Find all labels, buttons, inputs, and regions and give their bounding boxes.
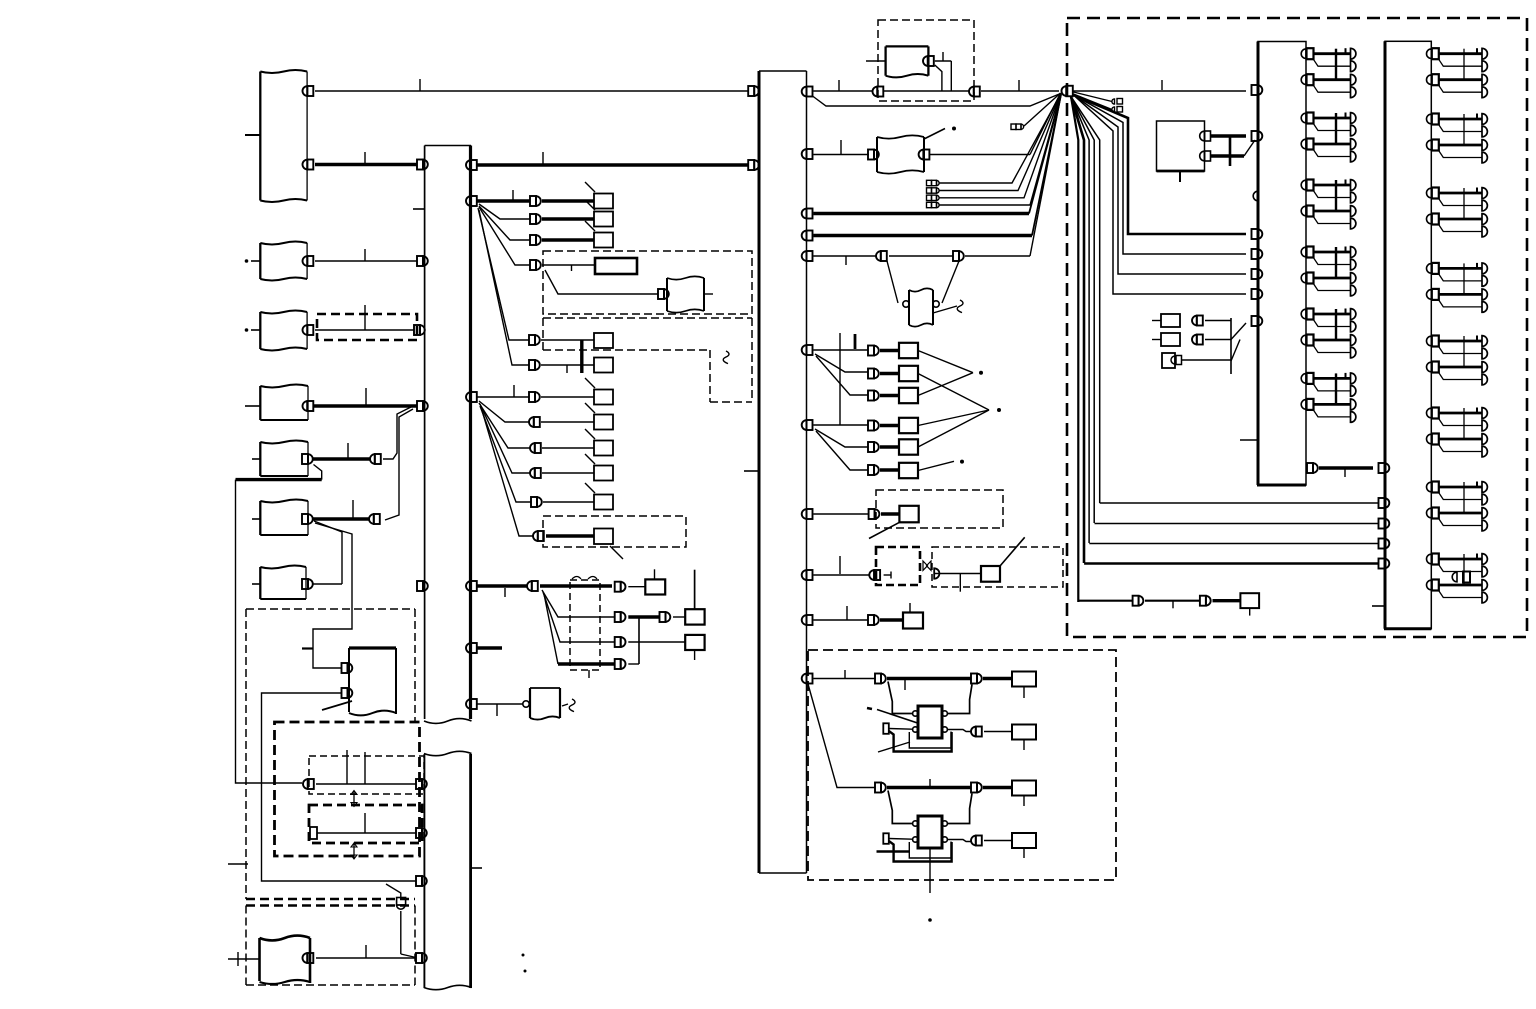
wire row575	[814, 574, 870, 576]
bundle wire 1	[1071, 97, 1078, 603]
stub f2	[1152, 339, 1161, 341]
fuse box f3	[1162, 353, 1175, 368]
cluster X3-1 wire B (thick)	[1314, 78, 1351, 81]
cluster X3-2 terminal 4	[1351, 151, 1356, 162]
wire node X1 down to P6 connector	[385, 409, 413, 520]
cluster X4-5 connector A	[1427, 336, 1439, 347]
load box row586	[645, 579, 665, 594]
cluster X3-3 connector B	[1301, 206, 1313, 217]
wire row219	[542, 217, 594, 220]
wire X2 to relay1	[814, 678, 876, 680]
component box (off-page) P5	[260, 441, 308, 477]
tick relay2 mid	[929, 779, 931, 787]
wire X2 to relay2 (diagonal)	[808, 684, 875, 788]
connector row616 a	[615, 612, 626, 622]
cluster X4-1 connector B	[1427, 74, 1439, 85]
cluster X4-8 terminal 1	[1482, 554, 1487, 565]
lever mark row473	[585, 454, 595, 464]
tick row575	[839, 556, 841, 574]
terminal rect row833	[310, 827, 317, 839]
wire relay2 to load (thick)	[983, 786, 1012, 789]
connector X3 left pin 90	[1252, 85, 1263, 95]
wire E pin2 long run	[262, 693, 417, 881]
connector pair fa	[1192, 316, 1203, 326]
cluster X3-3 tick	[1345, 180, 1347, 186]
connector X1 right pin 2 (fan-out)	[466, 196, 477, 206]
tick on P3 wire	[364, 305, 366, 330]
dot left of P3	[245, 328, 249, 332]
load resistor row536	[594, 529, 613, 545]
vertical trunk wire at far left	[236, 480, 303, 783]
cluster X4-1 splice bar	[1463, 49, 1465, 80]
cluster X4-4 connector B	[1427, 289, 1439, 300]
relay K2 coil loop inner	[909, 842, 951, 859]
cluster X4-4 splice bar	[1463, 263, 1465, 294]
node dot 3	[960, 460, 964, 464]
terminator box bh	[1240, 593, 1259, 608]
connector X2 left pin 91	[748, 86, 759, 96]
wire row91 a	[814, 90, 873, 92]
cluster X4-1 terminal 3	[1482, 74, 1487, 85]
wire row256 diagonal to splice	[1030, 95, 1061, 256]
cluster X4-4 wire A (thick)	[1439, 267, 1482, 270]
lamp box row620	[903, 613, 923, 629]
cluster X4-6 terminal 1	[1482, 408, 1487, 419]
wire lamp row395 (thick)	[880, 394, 899, 397]
mating arrows symbol	[923, 561, 931, 570]
cluster X4-3 terminal 2	[1482, 200, 1487, 211]
connector on ignition box	[923, 56, 934, 66]
updown symbol a	[351, 791, 357, 807]
wire row240	[542, 238, 594, 241]
connector X1 right pin 3 (fan-out 2)	[466, 392, 477, 402]
tick on X1-X2 wire	[542, 152, 544, 164]
cluster X4-8 tick	[1476, 554, 1478, 560]
lever mark row201	[585, 182, 595, 192]
wire row397	[541, 396, 594, 398]
tick below R4	[1023, 848, 1025, 858]
wire lamp row373 to node	[918, 374, 989, 411]
cluster X4-8 wire B (thick)	[1439, 584, 1482, 587]
lamp box row373	[899, 366, 918, 381]
cluster X3-4 terminal 1	[1351, 247, 1356, 258]
fan wire row350	[814, 349, 869, 351]
cluster X3-5 terminal 1	[1351, 309, 1356, 320]
relay K2 coil wire	[889, 838, 913, 841]
cluster X4-8 terminal 3	[1482, 580, 1487, 591]
cluster X3-5 connector A	[1301, 309, 1313, 320]
tiny connector row127	[1011, 124, 1024, 130]
cluster X3-5 connector B	[1301, 335, 1313, 346]
relay K1 body	[918, 706, 942, 738]
dashed boundary top (ignition)	[878, 20, 974, 101]
tick relay1 mid	[904, 679, 906, 691]
fan2 diag row473	[480, 404, 530, 473]
bottom harness wire c (thick)	[1213, 599, 1241, 602]
connector X4 left pin 503	[1379, 498, 1390, 508]
connector X1 left pin C	[414, 325, 425, 335]
bundle wire 2	[1071, 97, 1084, 564]
cluster X3-4 terminal 2	[1351, 259, 1356, 270]
connector X2 right pin 350 (fan)	[802, 345, 813, 355]
connector X2 right pin 213	[802, 209, 813, 219]
connector X3 left pin 321	[1252, 316, 1263, 326]
connector relay1 out	[971, 674, 982, 684]
cluster X3-3 branch A2	[1313, 190, 1351, 198]
wire fa	[1205, 320, 1231, 322]
cluster X3-4 branch B2	[1313, 283, 1351, 291]
tick on P4 wire	[365, 388, 367, 405]
wire row616 to load	[673, 616, 685, 618]
stub wire row648 (thick)	[477, 646, 502, 649]
relay K1 coil loop outer (thick)	[889, 731, 952, 752]
relay K1 leg right	[948, 685, 972, 714]
connector pair row91 c	[969, 87, 980, 97]
load resistor row473	[594, 466, 613, 481]
stub right of sensor	[704, 293, 713, 295]
cluster X4-5 splice bar	[1463, 336, 1465, 367]
junction connector X3	[1257, 42, 1306, 486]
fan diagonal to row 240	[479, 206, 530, 240]
component box (off-page) P3	[260, 311, 307, 351]
cluster X3-3 wire A (thick)	[1314, 184, 1351, 187]
cluster X4-4 tick	[1476, 263, 1478, 269]
cluster X4-7 terminal 3	[1482, 508, 1487, 519]
cluster X3-6 branch B2	[1313, 409, 1351, 417]
cluster X4-8 branch B2	[1438, 590, 1482, 598]
cluster X4-3 terminal 1	[1482, 188, 1487, 199]
cluster X3-1 terminal 4	[1351, 87, 1356, 98]
connector row240	[530, 235, 541, 245]
tick below R1	[1023, 687, 1025, 699]
relay K1 lever 2	[878, 742, 910, 752]
cluster X3-2 terminal 1	[1351, 113, 1356, 124]
dash right of ground box	[562, 704, 568, 706]
wire row510	[814, 513, 869, 515]
wire row213 diagonal to splice	[1029, 94, 1061, 214]
wire relay1 (thick)	[887, 677, 971, 680]
wire lamp row373 (thick)	[880, 372, 899, 375]
leg left to horn	[887, 261, 898, 303]
connector pair row586 a	[527, 581, 538, 591]
connector at sensor	[658, 289, 669, 299]
fan wire to row 201	[477, 199, 530, 202]
updown symbol b	[351, 843, 357, 859]
dashed boundary F2	[932, 547, 1063, 587]
drop wire row265 to sensor	[545, 270, 658, 294]
feed wire vertical	[694, 570, 696, 610]
wire fb	[1205, 339, 1231, 341]
cluster X3-1 terminal 2	[1351, 61, 1356, 72]
tick relay1 wire	[844, 670, 846, 678]
connector X1 left pin A	[417, 160, 428, 170]
wire relay1 to load (thick)	[983, 677, 1012, 680]
splice bar f	[1230, 318, 1232, 374]
cluster X3-6 terminal 3	[1351, 399, 1356, 410]
fan2 diag row448	[479, 403, 530, 448]
connector X2 right pin 575	[802, 570, 813, 580]
wire P5 drop to ground run	[314, 465, 322, 480]
lamp box F2	[981, 566, 1000, 582]
relay K1 lever dash	[867, 708, 872, 709]
connector X3 left pin 274	[1252, 269, 1263, 279]
connector on P6	[302, 514, 313, 524]
tick row91 d	[1018, 80, 1020, 91]
cluster X4-7 terminal 4	[1482, 520, 1487, 531]
wire P5 to splice	[313, 457, 371, 460]
cluster X4-6 connector A	[1427, 408, 1439, 419]
leg right to horn	[942, 261, 959, 303]
relay K2 coil loop outer (thick)	[889, 841, 952, 862]
cluster X4-8 connector B	[1427, 580, 1439, 591]
cluster X4-5 branch B2	[1438, 372, 1482, 380]
component block row265 (wide)	[595, 258, 637, 274]
tick row365	[566, 365, 568, 373]
cluster X4-2 splice bar	[1463, 114, 1465, 145]
cluster X3-2 connector B	[1301, 139, 1313, 150]
connector relay1 in	[875, 674, 886, 684]
tick on X2 left edge	[744, 470, 759, 472]
fan2 diag row502	[480, 406, 531, 502]
cluster X3-5 splice bar	[1335, 309, 1337, 340]
connector X1 right pin 1	[466, 160, 477, 170]
connector relay2 out	[971, 783, 982, 793]
motor box E (wavy bottom)	[349, 648, 396, 715]
wire U1 out2 (thick)	[1211, 154, 1245, 157]
lamp switch box (wavy)	[877, 135, 924, 173]
wire P1 to junction block J/B (top feed)	[315, 90, 748, 92]
load resistor row365	[594, 358, 613, 373]
thick tick row350	[854, 334, 857, 349]
connector relay2 in	[875, 783, 886, 793]
wire lamp row350 to node	[918, 351, 973, 373]
wire X1 to relay block X2 (thick)	[477, 163, 748, 166]
relay K1 pin BR	[942, 727, 947, 732]
cluster X4-3 splice bar	[1463, 188, 1465, 219]
bottom harness wire b	[1145, 600, 1200, 602]
connector on P5	[302, 454, 313, 464]
wire row91 b	[884, 90, 969, 92]
tick row586	[504, 588, 506, 597]
component box (off-page) P8	[260, 936, 311, 984]
dashed boundary box D3	[543, 516, 686, 547]
wire P3 to X1	[315, 329, 414, 331]
fan3 diag row641	[543, 592, 615, 642]
cluster X3-5 wire A (thick)	[1314, 313, 1351, 316]
tick row704	[496, 704, 498, 716]
cluster X3-4 tick	[1345, 247, 1347, 253]
component box (off-page) P4	[260, 385, 308, 421]
wire lamp row447 to node	[918, 410, 989, 447]
tick on P2 wire	[364, 249, 366, 261]
wire row265	[542, 264, 595, 266]
socket bump X3 196	[1253, 191, 1258, 201]
lever on lamp switch	[924, 129, 945, 140]
component box (off-page) P2	[260, 242, 307, 281]
connector X2 right pin 236	[802, 231, 813, 241]
cluster X3-2 wire A (thick)	[1314, 117, 1351, 120]
tick row201	[512, 190, 514, 201]
cluster X3-6 terminal 2	[1351, 386, 1356, 397]
diag f to X3	[1231, 323, 1246, 340]
socket in F2	[934, 568, 939, 578]
wire row620 b (thick)	[880, 618, 903, 621]
cluster X4-2 branch B2	[1438, 150, 1482, 158]
connector row265	[530, 260, 541, 270]
dashed boundary E1 (door group)	[246, 609, 415, 899]
wire row448	[542, 447, 594, 449]
wire relay2 aux (thin)	[984, 840, 1012, 842]
cluster X3-4 wire B (thick)	[1314, 277, 1351, 280]
cluster X3-3 terminal 4	[1351, 218, 1356, 229]
connector row397	[529, 392, 540, 402]
wire ignition to row91 a	[935, 61, 952, 91]
cluster X3-6 wire B (thick)	[1314, 403, 1351, 406]
connector X3 left pin 136	[1252, 131, 1263, 141]
wire row256 a	[814, 255, 877, 257]
cluster X3-6 terminal 4	[1351, 412, 1356, 423]
fuse box f1	[1161, 314, 1180, 327]
cluster X4-6 wire A (thick)	[1439, 412, 1482, 415]
cluster X4-2 terminal 1	[1482, 114, 1487, 125]
wire row510 b (thick)	[881, 512, 899, 515]
cluster X4-2 terminal 4	[1482, 152, 1487, 163]
load resistor R2	[1012, 725, 1036, 740]
tiny connector bank pin 1	[927, 180, 940, 185]
wire to t1	[1074, 92, 1113, 102]
branch wire 4	[1074, 95, 1247, 234]
load resistor row219	[594, 212, 613, 227]
stub on P6 left	[252, 518, 260, 520]
cluster X3-1 wire A (thick)	[1314, 52, 1351, 55]
connector X1 left pin E	[417, 581, 428, 591]
wire lamp row470 stub	[918, 461, 954, 470]
tick row91 left	[838, 80, 840, 91]
tick on X1 left edge	[413, 208, 425, 210]
connector row219	[530, 214, 541, 224]
wire from P5 connector up to X1 node	[383, 407, 411, 459]
tick on P1 left	[245, 134, 260, 136]
fan3 diag row616	[542, 590, 615, 617]
cluster X4-5 terminal 3	[1482, 362, 1487, 373]
stub on P4 left	[245, 405, 260, 407]
relay K1 coil wire	[889, 728, 913, 731]
wire row236 diagonal to splice	[1032, 95, 1061, 236]
branch wire 1	[1074, 95, 1247, 294]
cross harness wire 1	[1100, 502, 1379, 504]
wire bank pin 1 to splice	[939, 94, 1061, 184]
cluster X4-8 terminal 2	[1482, 566, 1487, 577]
tick on X4 left edge	[1372, 605, 1385, 607]
relay K1 coil loop inner	[909, 732, 951, 749]
connector pair bh a	[1133, 596, 1144, 606]
wire row236 (thick)	[814, 234, 1033, 237]
cluster X3-6 branch A2	[1313, 383, 1351, 391]
relay K1 leg left	[888, 682, 913, 714]
tiny connector t1	[1112, 99, 1123, 105]
load resistor row397	[594, 390, 613, 405]
cluster X3-1 terminal 1	[1351, 48, 1356, 59]
diag U1 out2 to X3	[1244, 140, 1255, 156]
relay K2 pin BR	[942, 837, 947, 842]
connector row661	[615, 659, 626, 669]
connector X2 right pin 154	[802, 149, 813, 159]
cluster X3-6 terminal 1	[1351, 373, 1356, 384]
cluster X4-5 tick	[1476, 336, 1478, 342]
ground run wire (thick)	[236, 478, 322, 481]
connector row502	[531, 497, 542, 507]
connector X1b pin 833	[416, 828, 427, 838]
bundle wire 5	[1071, 97, 1100, 504]
dashed boundary E5 (bottom)	[246, 906, 415, 986]
cluster X3-5 terminal 4	[1351, 347, 1356, 358]
diag f2 to X3	[1231, 340, 1240, 362]
connector lamp row425	[868, 421, 879, 431]
cluster X4-7 wire A (thick)	[1439, 486, 1482, 489]
connector on P2	[303, 256, 314, 266]
fuse box f2	[1161, 333, 1180, 346]
splice bar U1	[1229, 136, 1232, 166]
wire X3-X4 (thick)	[1319, 466, 1373, 469]
wire U1 out1 (thick)	[1211, 134, 1247, 137]
relay block X2 (tall)	[759, 71, 807, 873]
load box row616	[685, 609, 704, 624]
load resistor R4	[1012, 833, 1036, 848]
wire lamp row425 to node	[918, 410, 989, 426]
tick row265	[571, 265, 573, 271]
socket symbol in F1	[869, 570, 891, 580]
cluster X3-4 connector B	[1301, 273, 1313, 284]
cluster X4-2 wire B (thick)	[1439, 144, 1482, 147]
wire row213 (thick)	[814, 212, 1030, 215]
lever mark row240	[585, 221, 595, 231]
fan wire to row 219	[479, 204, 530, 219]
connector on P7	[302, 579, 313, 589]
connector X2 right pin 510	[802, 509, 813, 519]
connector E pin1	[342, 663, 353, 673]
wire P2 to X1	[315, 260, 417, 262]
branch wire 3	[1074, 95, 1247, 254]
cluster X4-4 terminal 2	[1482, 276, 1487, 287]
relay K1 coil terminal	[883, 723, 889, 734]
wire lamp row447 (thick)	[880, 445, 899, 448]
connector lamp row395	[868, 391, 879, 401]
cluster X3-4 terminal 3	[1351, 273, 1356, 284]
dashed boundary G (flasher group)	[808, 650, 1116, 880]
cluster X3-1 connector A	[1301, 48, 1313, 59]
cluster X4-6 branch B2	[1438, 444, 1482, 452]
small dashed box F1 (thick)	[876, 547, 920, 585]
small socket circle row704	[523, 701, 529, 707]
connector on P3	[303, 325, 314, 335]
branch wire 2	[1074, 95, 1247, 274]
relay K2 pin TL	[913, 821, 918, 826]
fan diag row395	[816, 356, 868, 395]
cluster X4-2 connector B	[1427, 140, 1439, 151]
lamp box row425	[899, 418, 918, 433]
connector f3	[1171, 356, 1182, 365]
wire relay2 (thick)	[887, 786, 971, 789]
connector on P1 pin 1	[303, 86, 314, 96]
wire row422	[541, 421, 594, 423]
connector on P4	[303, 401, 314, 411]
load resistor row340	[594, 333, 613, 348]
tick on ignition wire	[942, 52, 944, 61]
dashed boundary E4 (thick)	[309, 805, 422, 843]
tick row397	[513, 385, 515, 397]
wire row704	[477, 703, 523, 705]
wire row661 (thick)	[558, 662, 615, 665]
